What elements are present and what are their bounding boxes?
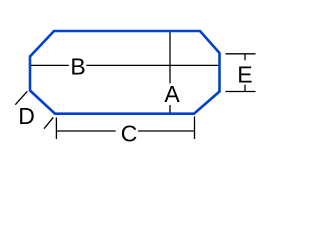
svg-text:A: A	[164, 81, 180, 107]
svg-text:D: D	[18, 103, 35, 129]
svg-text:B: B	[70, 54, 85, 80]
svg-text:E: E	[237, 62, 252, 88]
svg-text:C: C	[121, 120, 138, 146]
